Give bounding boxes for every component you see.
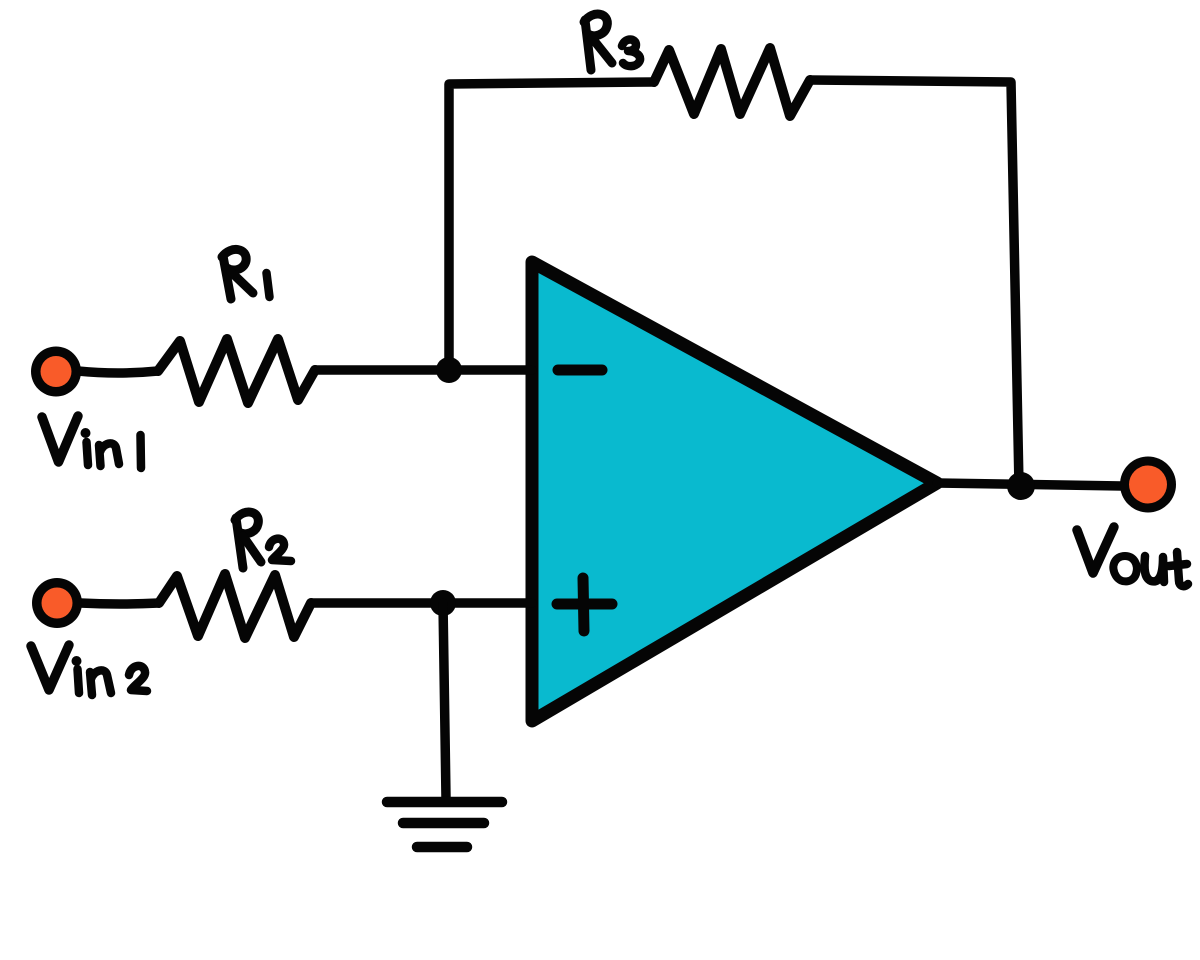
label Vin2 xyxy=(31,645,147,695)
node: junction of R2 and ground branch xyxy=(430,590,456,616)
resistor R1 xyxy=(158,339,315,403)
terminal Vin2 xyxy=(32,578,82,628)
wire: Vin2 terminal to R2 xyxy=(80,603,159,604)
terminal Vin1 xyxy=(31,347,81,397)
wire: R2 to non-inverting input xyxy=(311,598,532,608)
wire: Vin1 terminal to R1 xyxy=(78,371,158,373)
op-amp U1 xyxy=(532,262,937,721)
node: output junction with feedback xyxy=(1007,472,1035,500)
label Vout xyxy=(1077,527,1188,586)
label R2 xyxy=(235,512,291,568)
wire: junction down to ground xyxy=(443,603,446,798)
op-amp inverting input pin '−' xyxy=(558,365,602,376)
resistor R2 xyxy=(159,574,311,638)
node: junction of feedback and R1 at inverting input xyxy=(436,357,462,383)
label R1 xyxy=(222,249,270,299)
label R3 xyxy=(584,14,640,70)
ground xyxy=(387,802,502,847)
wire: feedback loop left vertical and top run to R3 xyxy=(449,82,654,370)
label Vin1 xyxy=(42,416,141,468)
wire: op-amp output to Vout terminal xyxy=(937,483,1122,486)
op-amp non-inverting input pin '+' xyxy=(557,578,612,631)
resistor R3 xyxy=(654,48,810,116)
wire: R1 to inverting input xyxy=(315,365,532,375)
wire: R3 to right vertical drop down to output node xyxy=(810,80,1019,486)
terminal Vout xyxy=(1120,457,1176,513)
